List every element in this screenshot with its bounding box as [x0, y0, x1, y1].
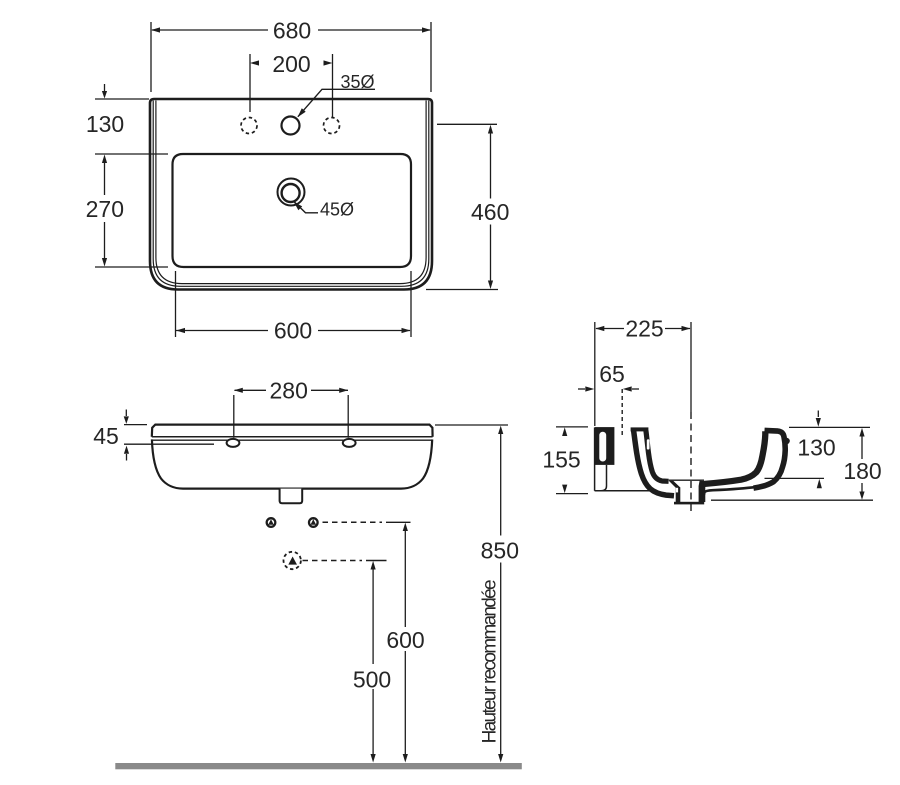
svg-text:850: 850 — [481, 538, 519, 564]
svg-text:65: 65 — [599, 361, 625, 387]
svg-text:200: 200 — [272, 51, 310, 77]
svg-text:500: 500 — [353, 667, 391, 693]
svg-text:Hauteur recommandée: Hauteur recommandée — [480, 579, 501, 743]
svg-text:460: 460 — [471, 199, 509, 225]
svg-text:130: 130 — [86, 111, 124, 137]
svg-text:180: 180 — [843, 458, 881, 484]
svg-text:225: 225 — [625, 316, 663, 342]
svg-text:600: 600 — [274, 318, 312, 344]
svg-text:35Ø: 35Ø — [341, 72, 375, 92]
svg-text:280: 280 — [270, 378, 308, 404]
svg-text:600: 600 — [386, 627, 424, 653]
svg-text:270: 270 — [86, 196, 124, 222]
svg-text:45Ø: 45Ø — [320, 200, 354, 220]
svg-text:680: 680 — [273, 18, 311, 44]
svg-text:155: 155 — [542, 447, 580, 473]
svg-text:45: 45 — [93, 423, 119, 449]
svg-text:130: 130 — [797, 435, 835, 461]
